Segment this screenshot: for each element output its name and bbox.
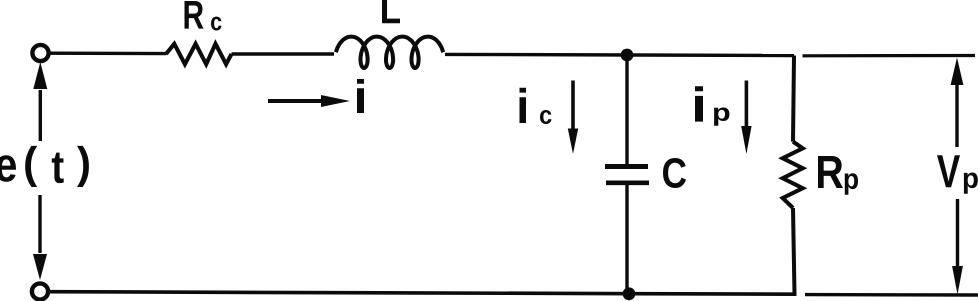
current arrow ip [741, 81, 751, 155]
source arrow up [33, 62, 47, 141]
wire capacitor bottom [625, 183, 628, 294]
terminal top-left [32, 45, 48, 61]
Vp arrow lower [952, 199, 963, 295]
label i [357, 79, 364, 113]
wire Rp top [793, 56, 794, 142]
wire capacitor top [625, 55, 628, 165]
resistor Rc [166, 44, 232, 64]
label Vp [937, 155, 978, 193]
wire top mid2 [445, 54, 794, 55]
label Rc [185, 1, 222, 31]
label L [382, 0, 400, 23]
inductor L [336, 37, 443, 68]
wire top mid1 [232, 52, 335, 55]
capacitor C plates [605, 167, 649, 183]
label ip [695, 86, 729, 126]
wire bottom main [48, 292, 797, 295]
label e(t) [0, 146, 89, 187]
Vp arrow upper [951, 58, 964, 148]
label C [663, 158, 686, 188]
label Rp [818, 156, 858, 195]
node top junction [621, 49, 634, 62]
source arrow down [33, 195, 47, 280]
current arrow ic [568, 81, 578, 155]
wire Rp bottom [793, 208, 795, 294]
rail Vp top [803, 54, 976, 57]
wire top left [49, 52, 167, 56]
resistor Rp [783, 142, 803, 208]
current arrow i [268, 95, 350, 107]
rail Vp bottom [805, 293, 978, 297]
terminal bottom-left [32, 283, 48, 299]
label ic [519, 88, 551, 124]
node bottom junction [623, 287, 636, 300]
